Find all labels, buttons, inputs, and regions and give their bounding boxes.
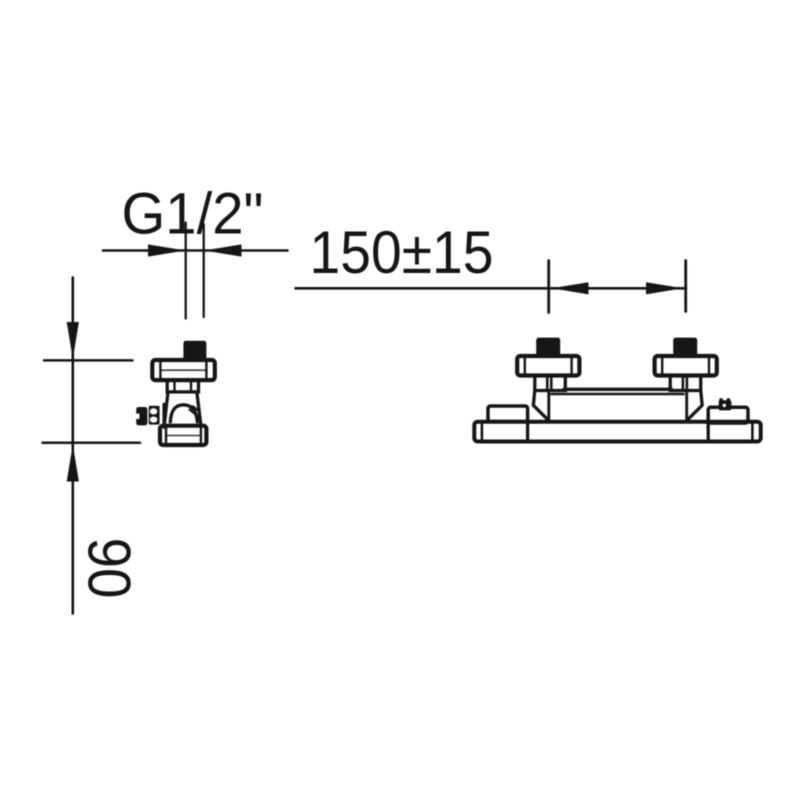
svg-text:150±15: 150±15 bbox=[310, 219, 494, 286]
svg-text:G1/2": G1/2" bbox=[122, 182, 264, 247]
svg-text:90: 90 bbox=[76, 538, 143, 599]
